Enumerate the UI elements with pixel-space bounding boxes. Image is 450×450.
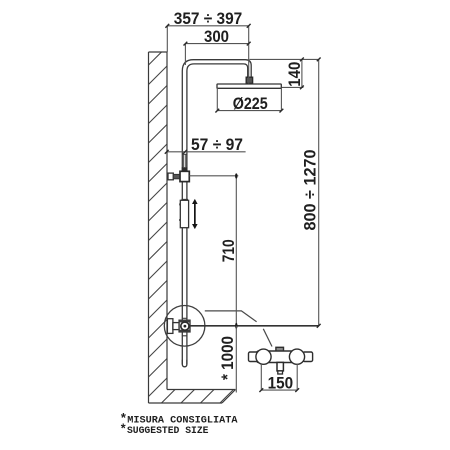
shower column pipe — [182, 60, 251, 365]
svg-text:357 ÷ 397: 357 ÷ 397 — [174, 10, 243, 28]
svg-text:710: 710 — [220, 239, 238, 262]
pipe collar — [180, 171, 189, 181]
floor outline — [149, 390, 236, 404]
valve neck — [173, 323, 179, 330]
wall outline — [149, 52, 168, 403]
leader segment 2 — [263, 329, 272, 347]
wall bracket plate — [168, 173, 173, 180]
leader to mixer detail — [205, 311, 257, 322]
shower head plate — [217, 84, 281, 88]
dimension Ø225 — [217, 88, 281, 111]
mixer left cap — [249, 352, 258, 362]
slider extension line — [189, 175, 238, 177]
hand shower slider — [180, 200, 188, 227]
dimension 150 — [261, 364, 297, 390]
head right extension line — [282, 86, 304, 88]
dimension 710 — [235, 176, 237, 326]
dimension 57÷97 — [167, 151, 246, 153]
detail circle — [164, 306, 205, 347]
pipe bottom tip — [182, 360, 187, 367]
mixer top stub — [276, 347, 284, 351]
valve centerline — [190, 325, 318, 327]
mixer right cap — [303, 352, 313, 362]
slider joint line — [181, 198, 188, 200]
mixer right knob — [289, 349, 304, 364]
dimension 300 — [185, 44, 248, 65]
mixer left knob — [256, 349, 271, 364]
dimension 357÷397 — [167, 26, 248, 84]
top extension line — [249, 58, 318, 60]
pipe sleeve joint — [182, 154, 187, 167]
dark pipe joint block — [182, 167, 188, 171]
valve body — [179, 320, 190, 332]
wall bracket arm — [173, 174, 180, 178]
svg-text:140: 140 — [286, 62, 304, 87]
dimension 1000 — [235, 326, 237, 393]
valve wall flange — [167, 319, 173, 334]
valve lower joint — [182, 335, 187, 337]
mixer body — [257, 351, 304, 363]
dimension 140 — [301, 59, 303, 87]
svg-text:Ø225: Ø225 — [233, 95, 268, 113]
svg-text:* 1000: * 1000 — [219, 336, 237, 380]
adjustment arrow — [192, 199, 198, 229]
svg-text:800 ÷ 1270: 800 ÷ 1270 — [301, 150, 319, 231]
head connector — [246, 77, 252, 83]
mixer bottom stub — [277, 362, 283, 371]
svg-text:57 ÷ 97: 57 ÷ 97 — [191, 136, 243, 154]
valve handle — [181, 322, 189, 330]
dimension 800÷1270 — [318, 59, 320, 325]
svg-text:300: 300 — [204, 28, 229, 46]
svg-text:150: 150 — [268, 375, 294, 393]
valve upper joint — [182, 317, 187, 319]
